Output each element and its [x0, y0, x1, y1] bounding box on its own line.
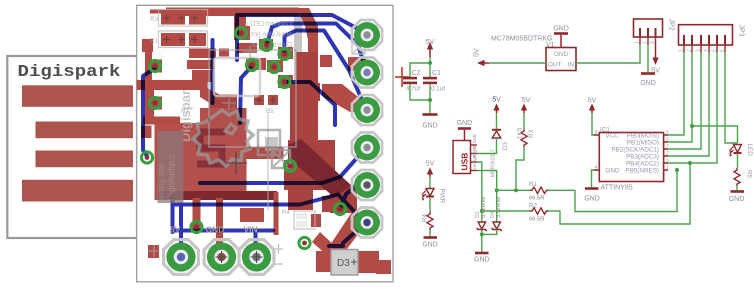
connector JP2 [634, 19, 663, 37]
left vertical link [145, 90, 154, 118]
svg-text:3: 3 [650, 41, 656, 44]
bottom pad x181 [164, 240, 199, 275]
top middle pad crosses [256, 99, 263, 101]
wire caps to gnd [410, 85, 430, 115]
resistor R3 pads [161, 12, 185, 25]
wire D3 to USB 5V pin [477, 138, 497, 154]
wire R1 left [497, 189, 530, 191]
red copper layer [137, 8, 391, 275]
svg-text:R3: R3 [150, 16, 159, 23]
left trace y117 [143, 117, 180, 125]
left edge blob [141, 126, 152, 139]
5V supply (caps) [426, 39, 435, 57]
USB finger 1 [22, 85, 133, 107]
svg-text:Digistump.c: Digistump.c [166, 153, 176, 201]
junction (481.8,234.4) [480, 232, 484, 236]
USB finger 2 [36, 122, 134, 139]
svg-text:JP3: JP3 [738, 25, 745, 37]
svg-text:R3: R3 [528, 129, 535, 138]
central copper block [155, 123, 247, 200]
svg-text:ATTINY85: ATTINY85 [601, 185, 633, 192]
wire R2 left [482, 210, 530, 212]
header pad x367 y222.5 [352, 208, 382, 238]
svg-text:5V: 5V [588, 98, 597, 105]
wire LED to R5 [737, 154, 739, 169]
top silk band trace [166, 8, 299, 17]
bottom left red bit [148, 245, 159, 258]
blue trace band to pad6 [278, 195, 365, 222]
capacitor C2 [403, 77, 417, 84]
ground (caps) [423, 113, 438, 116]
via (290,166) [284, 160, 295, 171]
D3 left pad [316, 251, 331, 272]
USB finger 3 [36, 151, 134, 168]
via (340,209) [334, 203, 345, 214]
wire R5 to ground [736, 186, 738, 192]
wire LED to R4 [429, 197, 431, 212]
junction (690,163) [688, 161, 692, 165]
blue trace pad4 diag [200, 150, 364, 183]
gray xbox near pad2 [352, 41, 365, 54]
band drop diagonal [200, 88, 230, 110]
blue trace T1 [237, 15, 366, 60]
svg-text:5V: 5V [651, 68, 660, 75]
svg-text:66.5R: 66.5R [529, 196, 544, 202]
svg-text:GND: GND [640, 80, 656, 87]
svg-text:GND: GND [422, 242, 438, 249]
svg-text:1: 1 [679, 49, 685, 52]
bottom pad x256.5 [239, 240, 274, 275]
svg-text:D3: D3 [337, 258, 350, 269]
zener D2 [478, 222, 486, 229]
ground (IC) [585, 187, 599, 190]
bottom right diagonal B [312, 232, 352, 270]
R1 outline [159, 31, 208, 48]
header pad x367 y35 [352, 20, 382, 50]
blue bottom band upper [173, 203, 278, 207]
svg-text:PB1(MISO): PB1(MISO) [627, 140, 659, 147]
block upper extension [200, 108, 247, 128]
5V arrow left of regulator [474, 48, 490, 66]
small part pads [296, 213, 307, 219]
svg-text:3: 3 [666, 158, 669, 164]
svg-text:D3: D3 [502, 141, 509, 150]
D3 component body [331, 250, 358, 276]
stub to pad5 [336, 182, 364, 203]
via (266.5,45) [261, 39, 272, 50]
svg-text:GND: GND [729, 196, 745, 203]
mid right copper pour [290, 101, 318, 155]
JP2 pin3 5V arrow down [655, 45, 657, 59]
zener D4 [493, 222, 501, 229]
svg-text:5V: 5V [492, 97, 501, 104]
svg-text:GND: GND [457, 120, 473, 127]
wire IN to JP2 pin1 [576, 45, 640, 63]
svg-text:OUT: OUT [548, 62, 561, 69]
connector JP3 [679, 25, 733, 45]
svg-text:5V: 5V [522, 97, 531, 104]
svg-text:4: 4 [595, 165, 598, 171]
gray line x268 [267, 112, 269, 210]
svg-text:5: 5 [712, 49, 718, 52]
dark crosshair on block [225, 152, 247, 174]
crosshair +1 [243, 51, 257, 53]
svg-text:3.6Zener: 3.6Zener [496, 196, 502, 218]
svg-text:1: 1 [635, 41, 641, 44]
via (142,158) [141, 152, 152, 163]
blue drop to pad VIN [254, 231, 258, 257]
svg-text:C2: C2 [412, 70, 421, 77]
logo gear outline [193, 110, 290, 168]
svg-text:GND: GND [474, 257, 490, 264]
small part outline [294, 211, 315, 229]
svg-text:VIN: VIN [244, 225, 258, 235]
resistor R3 1K5 [521, 129, 527, 147]
blue bottom band lower [173, 229, 274, 233]
svg-text:USB_P: USB_P [472, 155, 477, 169]
junction (692,126) [690, 124, 694, 128]
svg-text:GND: GND [472, 134, 477, 143]
via pad (155,103) [149, 97, 162, 110]
blue copper layer [143, 15, 366, 257]
svg-text:5: 5 [666, 130, 669, 136]
zener bottoms to ground [482, 230, 497, 253]
wire R2 right to IC [548, 163, 690, 224]
svg-text:ant-Kellie (int: ant-Kellie (int [251, 32, 292, 39]
USB finger 4 [22, 180, 133, 202]
bottom right diagonal A [328, 212, 366, 258]
wire R1 right to IC [548, 170, 677, 212]
svg-text:GND: GND [554, 51, 568, 58]
wire GND pin to ground [592, 170, 594, 188]
svg-text:8: 8 [595, 130, 598, 136]
upper middle component outline [214, 58, 260, 96]
bottom left cross [148, 250, 160, 252]
capacitor C1 [423, 77, 437, 84]
svg-text:R4: R4 [282, 209, 291, 216]
wire USB_P down [477, 171, 497, 223]
svg-text:3: 3 [696, 49, 702, 52]
svg-text:1K5: 1K5 [517, 127, 524, 139]
resistor pad crosses [163, 15, 198, 44]
header pad x367 y185 [352, 170, 382, 200]
svg-text:5V: 5V [426, 161, 435, 168]
svg-text:MC78M05BDTRKG: MC78M05BDTRKG [491, 36, 552, 43]
bottom pad x221.5 [204, 240, 239, 275]
wire 5V to D3 [496, 113, 498, 129]
svg-text:IN: IN [568, 62, 575, 69]
svg-text:GND: GND [606, 168, 620, 175]
resistor R5 [734, 168, 740, 186]
left L trace [142, 39, 153, 52]
blue trace pad6 to D3 [343, 226, 362, 243]
via (284.5,54) [279, 48, 290, 59]
svg-text:JP2: JP2 [668, 19, 675, 31]
blue trace pad5 diag [341, 180, 364, 207]
svg-text:66.5R: 66.5R [529, 217, 544, 223]
D3 right pad [358, 251, 379, 273]
bottom red verticals [193, 198, 201, 231]
blue trace T3 [285, 31, 366, 108]
svg-text:Connect LED o: Connect LED o [244, 21, 292, 28]
wire R4 to ground [429, 230, 431, 237]
svg-text:6: 6 [720, 49, 726, 52]
via (155,103) [149, 97, 160, 108]
crosshair +2 [222, 102, 236, 104]
svg-text:2: 2 [666, 151, 669, 157]
svg-text:4: 4 [704, 49, 710, 52]
svg-text:R5: R5 [266, 108, 275, 115]
top band right hook [297, 8, 318, 44]
svg-text:PB5(NRES): PB5(NRES) [625, 168, 659, 175]
svg-text:5V: 5V [170, 225, 181, 235]
ground (LED) [731, 190, 745, 193]
blue left connector [171, 196, 175, 232]
via (241,33) [235, 27, 246, 38]
svg-text:PB0(MOSI): PB0(MOSI) [627, 133, 659, 140]
svg-text:R5: R5 [746, 170, 753, 179]
block dark S figure [197, 132, 225, 164]
blue via curve [240, 66, 252, 123]
svg-text:R4: R4 [422, 213, 429, 222]
junction (516,190.3) [514, 188, 518, 192]
svg-text:R1: R1 [150, 38, 159, 45]
JP2 pin2 to GND [647, 45, 649, 73]
svg-text:PWR: PWR [439, 189, 446, 204]
wire 5V to R3 [523, 113, 525, 129]
bottom right corner blob [376, 260, 391, 274]
bottom pad ticks [274, 248, 283, 250]
svg-text:2: 2 [232, 104, 236, 111]
blue drop to pad 5V [179, 204, 183, 257]
wire to PWR led [429, 177, 431, 189]
via (252,65) [246, 59, 257, 70]
ground (zeners) [475, 252, 489, 255]
red under via (340,209) [322, 196, 357, 212]
mirrored silk column on block [158, 131, 184, 203]
via (304.5,243) [299, 237, 310, 248]
left copper band [137, 80, 208, 90]
wire 5V to VCC [592, 113, 594, 135]
svg-text:VCC: VCC [606, 133, 620, 140]
svg-text:PB4(ADC2): PB4(ADC2) [626, 161, 659, 168]
block right band [247, 147, 284, 159]
via (284.5,82) [279, 76, 290, 87]
middle pad square [209, 95, 237, 114]
svg-text:GND: GND [553, 26, 569, 33]
junction (430,100) [428, 98, 432, 102]
via (274,67) [268, 61, 279, 72]
wire USB_M down [477, 162, 482, 222]
blue trace T4 [286, 82, 335, 125]
svg-text:6: 6 [666, 137, 669, 143]
header pad x367 y110 [352, 95, 382, 125]
svg-text:7: 7 [666, 144, 669, 150]
blue vertical x212 [211, 40, 215, 103]
blue left edge trace [143, 68, 155, 156]
gray vertical silk band [294, 10, 302, 115]
small part red pad [311, 214, 321, 227]
via pad (155,66) [149, 60, 162, 73]
wire R3 to R1 net [516, 147, 524, 190]
header pad x367 y147.5 [352, 133, 382, 163]
svg-text:GND: GND [206, 225, 225, 235]
via (155,66) [149, 60, 160, 71]
svg-text:getting star: getting star [157, 163, 166, 203]
diode D3 MBR0520LT [492, 129, 501, 131]
svg-text:4.7uf: 4.7uf [406, 86, 420, 93]
small part pads top middle [254, 95, 264, 105]
thermal square [272, 150, 290, 168]
resistor R1 pads [161, 33, 185, 46]
svg-text:3.6Zener: 3.6Zener [481, 196, 487, 218]
svg-text:GND: GND [422, 123, 438, 130]
header pad x367 y72.5 [352, 58, 382, 88]
svg-text:2: 2 [687, 49, 693, 52]
resistor R4 [427, 212, 433, 230]
PCB board outline [137, 5, 393, 282]
dark band under block [158, 191, 277, 200]
big component outline [209, 50, 296, 147]
R3 outline [159, 10, 208, 27]
svg-text:2: 2 [643, 41, 649, 44]
cluster traces upper middle [189, 49, 216, 59]
junction (430,63) [428, 61, 432, 65]
svg-text:USB: USB [460, 153, 470, 171]
svg-text:R7: R7 [181, 108, 190, 115]
wire OUT to 5V arrow [489, 62, 546, 64]
junction (481.8,211) [480, 209, 484, 213]
LED (right) [729, 144, 753, 157]
board origin cross marker [395, 67, 409, 87]
svg-text:C1: C1 [432, 70, 441, 77]
ground (PWR) [424, 236, 438, 239]
blue trace T2 [267, 24, 366, 71]
pour dark diagonal [288, 139, 352, 197]
svg-text:PB3(ADC3): PB3(ADC3) [626, 154, 659, 161]
diag to pad3 [322, 84, 362, 112]
svg-text:LED: LED [746, 144, 753, 157]
svg-text:0.1uf: 0.1uf [431, 86, 445, 93]
junction (496.7,190.3) [495, 188, 499, 192]
wire 5V to caps [410, 57, 430, 77]
blue D3 stub [329, 244, 343, 248]
JP3 wires to IC [668, 53, 738, 164]
svg-text:1: 1 [666, 165, 669, 171]
svg-text:5V: 5V [474, 48, 481, 57]
junction (677,170) [675, 168, 679, 172]
silkscreen layer [148, 10, 365, 265]
vertical trace right of hook [308, 26, 318, 64]
svg-text:PB2(SCK/ADC1): PB2(SCK/ADC1) [611, 147, 659, 154]
IC pin stubs [594, 135, 669, 170]
svg-text:GND: GND [584, 196, 600, 203]
component box R5 [258, 130, 280, 155]
svg-text:Digispark: Digispark [18, 63, 121, 82]
via (196.5,227) [191, 221, 202, 232]
USB plug outline [7, 56, 137, 238]
LED PWR [422, 189, 446, 204]
